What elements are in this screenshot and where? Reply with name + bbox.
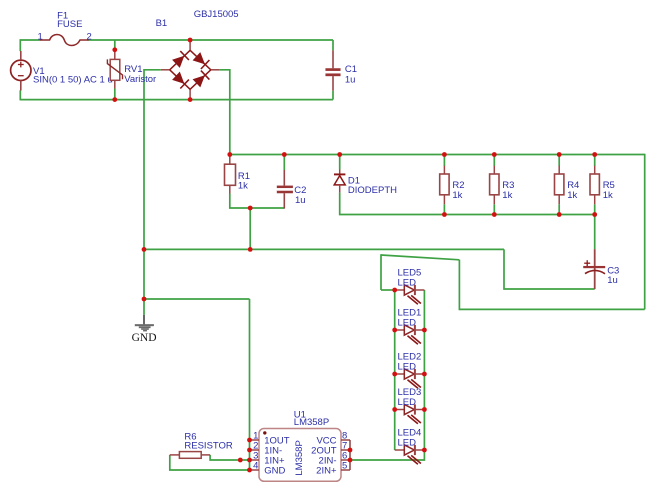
wire R3 bottom stub — [493, 204, 495, 214]
wire RV1 top stub — [114, 40, 116, 50]
svg-text:Varistor: Varistor — [124, 74, 156, 85]
wire horizontal rail y249 — [144, 248, 504, 250]
wire R4 top stub — [558, 155, 560, 167]
junction LED2 anode — [392, 372, 397, 377]
wire R2 top stub — [443, 155, 445, 167]
junction R3 top — [492, 152, 497, 157]
wire V1 left vertical top — [19, 39, 21, 51]
wire LED ladder right rail — [350, 290, 424, 460]
LED LED2 — [395, 369, 425, 388]
resistor R5 — [590, 166, 599, 205]
wire top rail from fuse to C1 — [88, 39, 333, 41]
svg-text:1u: 1u — [295, 195, 306, 206]
junction R5 bottom — [592, 212, 597, 217]
wire GND row horizontal — [144, 298, 250, 300]
svg-text:LM358P: LM358P — [294, 417, 329, 428]
svg-text:4: 4 — [253, 461, 258, 472]
junction RV1 top — [112, 47, 117, 52]
U1 left pin stubs — [250, 440, 260, 470]
bridge rectifier B1 — [161, 40, 220, 100]
junction U1 pin3 — [247, 458, 252, 463]
junction R6 node — [238, 458, 243, 463]
junction R4 top — [557, 152, 562, 157]
svg-text:GND: GND — [132, 332, 157, 344]
capacitor C2 — [277, 170, 293, 209]
junction rail y249 left — [142, 247, 147, 252]
wire R3 top stub — [493, 155, 495, 167]
junction U1 pin2 — [247, 448, 252, 453]
diode D1 — [334, 170, 345, 193]
junction R2 top — [442, 152, 447, 157]
wire R5 top stub — [594, 155, 596, 167]
capacitor C1 — [326, 50, 341, 90]
resistor R2 — [440, 166, 449, 205]
junction LED5 anode — [392, 288, 397, 293]
resistor R6 — [170, 452, 210, 459]
svg-text:DIODEPTH: DIODEPTH — [348, 185, 397, 196]
svg-text:SIN(0 1 50) AC 1 u: SIN(0 1 50) AC 1 u — [33, 75, 113, 86]
junction bridge top — [188, 38, 193, 43]
wire R2 bottom stub — [443, 204, 445, 214]
resistor R3 — [490, 166, 499, 205]
wire vertical to U1 left pins — [249, 299, 251, 470]
junction bridge bottom — [188, 97, 193, 102]
op-amp IC U1 body — [259, 429, 341, 482]
junction R1-C2 node — [248, 206, 253, 211]
wire R6 right lead to pin3 — [210, 455, 249, 460]
wire R4 bottom stub — [558, 204, 560, 214]
resistor R4 — [555, 166, 564, 205]
wire GND stem green — [143, 299, 145, 315]
voltage source V1 — [11, 51, 31, 91]
svg-text:LED: LED — [398, 361, 417, 372]
junction LED1 anode — [392, 328, 397, 333]
wire C2 top stub — [283, 155, 285, 171]
svg-text:LM358P: LM358P — [294, 440, 305, 475]
junction R4 bottom — [557, 212, 562, 217]
svg-text:1: 1 — [38, 32, 43, 43]
wire C1 top stub — [332, 40, 334, 50]
svg-text:1k: 1k — [452, 190, 462, 201]
wire R5 bottom stub — [594, 204, 596, 214]
junction GND node — [142, 297, 147, 302]
wire D1 top stub — [339, 155, 341, 170]
svg-text:FUSE: FUSE — [57, 19, 82, 30]
svg-text:1k: 1k — [238, 181, 248, 192]
svg-text:GBJ15005: GBJ15005 — [194, 9, 239, 20]
wire bottom rail of source loop — [20, 99, 333, 101]
wire sloped segment to LED ladder — [381, 255, 459, 260]
junction D1 top — [337, 152, 342, 157]
LED LED3 — [395, 404, 425, 423]
wire LED anode return vertical — [458, 260, 460, 310]
wire V1 left vertical bottom — [19, 90, 21, 100]
wire D1 bottom rail — [340, 192, 595, 214]
junction LED1 cathode — [422, 328, 427, 333]
wire bridge right down to mid rail — [219, 70, 229, 155]
wire down to C3 bottom — [504, 249, 595, 289]
svg-text:GND: GND — [264, 465, 285, 476]
varistor RV1 — [107, 50, 122, 89]
svg-text:1k: 1k — [567, 190, 577, 201]
junction RV1 bottom — [112, 97, 117, 102]
junction LED2 cathode — [422, 372, 427, 377]
svg-text:1u: 1u — [345, 74, 356, 85]
junction LED3 cathode — [422, 407, 427, 412]
svg-text:1u: 1u — [607, 275, 618, 286]
U1 right pin stubs — [341, 440, 350, 470]
LED LED4 — [395, 445, 425, 464]
wire mid rail — [230, 154, 645, 156]
junction U1 pin6 — [348, 458, 353, 463]
wire R1C2 node down to gnd rail — [249, 208, 251, 249]
svg-text:2: 2 — [87, 32, 92, 43]
wire LED ladder left rail — [394, 290, 396, 450]
svg-text:LED: LED — [398, 317, 417, 328]
wire C1 bottom stub — [332, 91, 334, 100]
svg-text:B1: B1 — [156, 18, 168, 29]
wire top rail left segment — [20, 39, 40, 41]
junction LED4 cathode — [422, 448, 427, 453]
wire LED5 anode drop — [380, 254, 382, 290]
svg-text:LED: LED — [398, 277, 417, 288]
resistor R1 — [225, 155, 236, 194]
ground symbol — [135, 315, 154, 332]
wire LED anode return horizontal — [459, 308, 644, 310]
wire tying U1 right pins — [349, 440, 351, 470]
svg-text:LED: LED — [398, 437, 417, 448]
LED LED5 — [395, 285, 425, 304]
junction U1 pin4 — [247, 468, 252, 473]
junction R1 top — [227, 152, 232, 157]
wire R1 bottom to C2 bottom — [230, 194, 284, 209]
LED LED1 — [395, 325, 425, 344]
svg-text:2IN+: 2IN+ — [316, 465, 337, 476]
svg-text:1k: 1k — [603, 190, 613, 201]
wire C3 top stub — [594, 215, 596, 250]
wire R6 left lead loop to pin4 — [170, 455, 250, 470]
junction U1 pin1 — [247, 438, 252, 443]
fuse F1 — [40, 34, 89, 45]
svg-text:RESISTOR: RESISTOR — [184, 441, 233, 452]
junction R3 bottom — [492, 212, 497, 217]
wire right edge vertical — [644, 154, 646, 310]
wire LED5 anode jog — [381, 289, 395, 291]
junction R5 top — [592, 152, 597, 157]
wire RV1 bottom stub — [114, 89, 116, 100]
svg-text:5: 5 — [342, 461, 347, 472]
junction R2 bottom — [442, 212, 447, 217]
svg-text:LED: LED — [398, 397, 417, 408]
junction rail y249 mid — [248, 247, 253, 252]
junction C2 top — [282, 152, 287, 157]
polarized capacitor C3 — [583, 249, 605, 289]
junction U1 pin7 — [348, 448, 353, 453]
junction LED3 anode — [392, 407, 397, 412]
wire bridge left to GND vertical — [144, 70, 161, 299]
svg-text:1k: 1k — [502, 190, 512, 201]
